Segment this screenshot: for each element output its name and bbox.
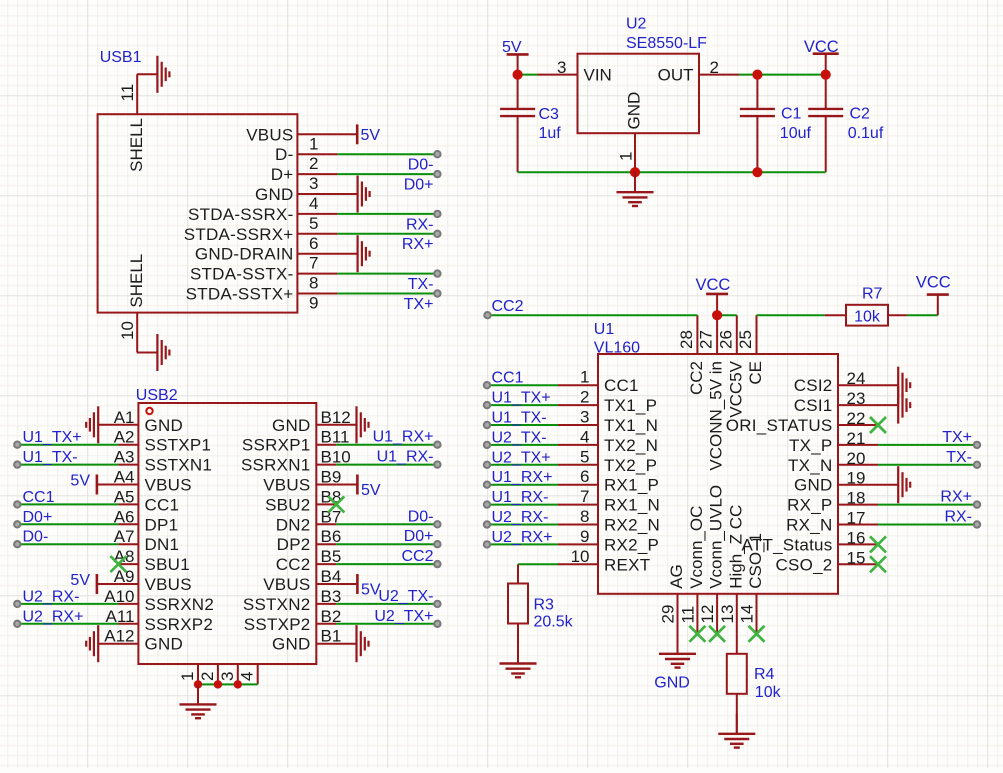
svg-text:11: 11 <box>118 84 137 102</box>
USB2 pin B2 SSTXP2 <box>244 607 342 634</box>
svg-text:RX+: RX+ <box>940 489 972 506</box>
power flag VCC at U2 output <box>804 38 839 75</box>
svg-text:TX1_N: TX1_N <box>604 416 658 435</box>
no-connect X at U1 pin 15 <box>870 556 886 572</box>
terminal node CC2 <box>434 561 440 567</box>
svg-text:10k: 10k <box>854 308 881 325</box>
net label TX+ <box>942 429 972 446</box>
svg-text:GND: GND <box>272 416 311 435</box>
IC U1 VL160 body <box>598 354 838 594</box>
ground at U1 pin 24 CSI2 <box>878 367 911 404</box>
junction at C1 top <box>752 70 762 80</box>
svg-text:VCONN_5V in: VCONN_5V in <box>707 361 726 471</box>
svg-text:5V: 5V <box>70 572 90 589</box>
svg-text:SE8550-LF: SE8550-LF <box>626 35 707 52</box>
svg-text:RX1_N: RX1_N <box>604 496 660 515</box>
wire net U2_RX+ to U1 pin 9 <box>487 543 558 545</box>
svg-text:9: 9 <box>580 527 589 546</box>
net label U2_TX- <box>378 588 433 605</box>
svg-text:2: 2 <box>580 388 589 407</box>
svg-text:RX1_P: RX1_P <box>604 476 659 495</box>
wire net CC2 top bus to U1 pin 28 <box>488 314 698 316</box>
svg-text:D0+: D0+ <box>23 509 53 526</box>
svg-text:VBUS: VBUS <box>263 575 310 594</box>
USB2 pin B8 SBU2 <box>265 487 341 514</box>
svg-text:8: 8 <box>309 274 318 293</box>
USB2 pin A7 DN1 <box>114 527 180 554</box>
ground at USB1 pin 7 GND-DRAIN <box>337 235 370 272</box>
U2 pin 3 VIN <box>538 58 612 85</box>
terminal node TX+ <box>434 290 440 296</box>
U1 pin 6 RX1_P <box>558 467 659 495</box>
svg-text:CC1: CC1 <box>492 370 524 387</box>
U1 pin 23 CSI1 <box>794 389 878 415</box>
wire net RX- from U1 pin 17 <box>878 524 977 526</box>
wire R7 to VCC <box>907 314 938 316</box>
svg-text:USB2: USB2 <box>136 387 178 404</box>
wire net U2_RX- at USB2 A10 <box>17 603 118 605</box>
no-connect X at U1 pin 14 <box>749 626 765 642</box>
U1 pin 7 RX1_N <box>558 487 660 514</box>
USB2 pin A1 GND <box>114 408 183 435</box>
svg-text:D0-: D0- <box>408 157 434 174</box>
svg-text:VCC: VCC <box>804 38 839 56</box>
net label U2_TX+ <box>374 608 433 625</box>
ground at U1 pin 29 AG <box>659 633 696 667</box>
wire net U1_RX+ at USB2 B11 <box>336 444 437 446</box>
svg-text:U2_TX-: U2_TX- <box>492 429 547 446</box>
svg-text:TX2_P: TX2_P <box>604 456 657 475</box>
svg-text:U2_RX-: U2_RX- <box>492 509 549 526</box>
no-connect X at U1 pin 16 <box>870 536 886 552</box>
svg-text:U1_RX-: U1_RX- <box>377 449 434 466</box>
ground under USB2 <box>180 684 217 718</box>
terminal node D0- <box>14 541 20 547</box>
USB2 pin A4 VBUS <box>114 468 192 495</box>
resistor R3 <box>508 564 574 663</box>
USB2 pin B10 SSRXN1 <box>241 448 351 475</box>
capacitor C2 <box>808 75 884 173</box>
svg-text:RX-: RX- <box>944 509 972 526</box>
U1 pin 9 RX2_P <box>558 527 659 555</box>
svg-text:RX-: RX- <box>406 216 434 233</box>
terminal node U1_RX+ <box>434 442 440 448</box>
reference designator U1 <box>594 321 640 357</box>
svg-text:U2_TX+: U2_TX+ <box>492 449 551 466</box>
USB2 pin B6 DP2 <box>277 527 342 554</box>
svg-text:20: 20 <box>847 449 866 468</box>
terminal node U1_RX- <box>434 461 440 467</box>
power flag 5V at USB2 pin B4 <box>336 574 381 599</box>
U1 pin 8 RX2_N <box>558 507 660 535</box>
svg-text:GND: GND <box>654 674 690 691</box>
svg-text:10k: 10k <box>755 684 782 701</box>
ground at U2 pin 1 <box>617 172 654 206</box>
svg-text:High_Z CC: High_Z CC <box>726 505 745 589</box>
svg-text:RX2_P: RX2_P <box>604 535 659 554</box>
wire net CC2 at USB2 B5 <box>336 563 437 565</box>
net label RX+ <box>940 489 972 506</box>
svg-text:VCC: VCC <box>695 276 730 294</box>
svg-text:U2_TX+: U2_TX+ <box>374 608 433 625</box>
svg-text:VBUS: VBUS <box>145 476 192 495</box>
svg-text:D+: D+ <box>271 165 294 184</box>
svg-text:7: 7 <box>309 254 318 273</box>
power flag 5V at USB2 pin A4 <box>70 473 118 495</box>
ground at USB2 pin B1 <box>336 625 369 662</box>
power flag VCC right of R7 <box>916 274 951 316</box>
wire net U1_RX- to U1 pin 7 <box>487 504 558 506</box>
net label U1_TX- <box>23 449 78 466</box>
terminal node RX- <box>974 521 980 527</box>
terminal node U1_RX+ <box>484 482 490 488</box>
terminal node D0+ <box>14 521 20 527</box>
wire net U2_RX- to U1 pin 8 <box>487 524 558 526</box>
svg-text:OUT: OUT <box>658 66 694 85</box>
wire net U1_TX+ at USB2 A2 <box>17 444 118 446</box>
wire net RX+ from USB1 <box>338 233 438 235</box>
terminal node RX- <box>434 211 440 217</box>
svg-text:9: 9 <box>309 294 318 313</box>
svg-text:GND: GND <box>794 476 833 495</box>
terminal node U2_TX+ <box>484 462 490 468</box>
net label CC2 <box>492 298 524 315</box>
reference designator U2 <box>626 16 707 52</box>
junction at U2 GND <box>630 167 640 177</box>
svg-text:5: 5 <box>309 214 318 233</box>
svg-text:TX_P: TX_P <box>789 436 833 455</box>
svg-text:SSRXN2: SSRXN2 <box>145 595 215 614</box>
wire net RX+ from U1 pin 18 <box>878 504 977 506</box>
resistor R7 <box>825 285 907 325</box>
svg-text:SSTXP2: SSTXP2 <box>244 615 311 634</box>
svg-text:GND: GND <box>145 416 184 435</box>
wire net TX+ from USB1 <box>338 293 438 295</box>
ground at USB2 pin A1 <box>86 406 119 443</box>
svg-text:DN1: DN1 <box>145 535 180 554</box>
svg-text:U1_TX-: U1_TX- <box>492 410 547 427</box>
junction at 5V/C3 <box>513 70 523 80</box>
USB2 pin A12 GND <box>104 627 183 654</box>
U1 pin 4 TX2_N <box>558 427 658 455</box>
wire net U1_TX- to U1 pin 3 <box>487 424 558 426</box>
power flag 5V at USB2 pin A9 <box>70 572 118 594</box>
net label U1_RX- <box>492 489 549 506</box>
ground at USB1 pin 11 <box>137 56 170 93</box>
wire joining USB2 pins 1-4 <box>198 683 258 685</box>
svg-text:22: 22 <box>847 409 866 428</box>
USB2 bottom pin 3 <box>218 664 238 684</box>
capacitor C1 <box>740 75 812 173</box>
svg-text:VIN: VIN <box>584 66 612 85</box>
svg-text:D-: D- <box>275 145 293 164</box>
USB2 pin A3 SSTXN1 <box>114 448 212 475</box>
wire VCC junction to U1 pin 26 <box>717 314 737 316</box>
U1 top pin 25 CE <box>736 315 765 384</box>
svg-text:SSTXN2: SSTXN2 <box>243 595 311 614</box>
terminal node U2_TX- <box>434 601 440 607</box>
wire 5V to VIN <box>518 74 538 76</box>
USB1 pin 7 GND-DRAIN <box>195 245 337 273</box>
ground at U1 pin 19 GND <box>878 466 911 503</box>
svg-text:19: 19 <box>847 469 866 488</box>
net label D0- <box>408 157 434 174</box>
svg-text:REXT: REXT <box>604 555 650 574</box>
wire net TX- from U1 pin 20 <box>878 464 977 466</box>
U1 pin 16 ATT_Status <box>742 528 879 554</box>
U1 bottom pin 13 High_Z CC <box>718 505 746 634</box>
terminal node CC1 <box>484 382 490 388</box>
wire net U2_TX+ at USB2 B2 <box>336 623 437 625</box>
U1 pin 5 TX2_P <box>558 447 657 475</box>
svg-text:U1_TX-: U1_TX- <box>23 449 78 466</box>
power flag VCC above U1 <box>695 276 730 315</box>
net label U2_RX+ <box>492 529 553 546</box>
svg-text:SSTXP1: SSTXP1 <box>145 436 212 455</box>
ground at USB1 pin 10 <box>137 334 170 371</box>
svg-text:C3: C3 <box>539 106 560 123</box>
terminal node D0- <box>434 151 440 157</box>
svg-text:10: 10 <box>118 321 137 340</box>
svg-text:25: 25 <box>736 330 755 349</box>
USB1 pin 1 VBUS <box>246 125 337 153</box>
svg-text:SBU2: SBU2 <box>265 495 310 514</box>
svg-text:U1_TX+: U1_TX+ <box>23 429 82 446</box>
svg-text:RX2_N: RX2_N <box>604 516 660 535</box>
USB1 pin 6 STDA-SSRX+ <box>184 225 338 253</box>
terminal node TX+ <box>974 442 980 448</box>
terminal node CC1 <box>14 501 20 507</box>
net label GND <box>654 674 690 691</box>
svg-text:1: 1 <box>580 368 589 387</box>
svg-text:24: 24 <box>847 369 866 388</box>
reference designator USB2 <box>136 387 178 404</box>
svg-text:TX_N: TX_N <box>788 456 832 475</box>
U1 top pin 26 VCC5V <box>716 315 745 417</box>
connector USB2 body <box>138 403 316 664</box>
svg-text:1uf: 1uf <box>539 125 562 142</box>
junction at VCC/C2 top <box>821 70 831 80</box>
junction at USB2 pin 2 <box>214 680 222 688</box>
terminal node RX+ <box>434 231 440 237</box>
svg-text:2: 2 <box>309 154 318 173</box>
wire net U1_TX+ to U1 pin 2 <box>487 404 558 406</box>
terminal node U1_TX- <box>484 422 490 428</box>
svg-text:R4: R4 <box>754 666 775 683</box>
net label CC1 <box>23 489 55 506</box>
terminal node U1_TX+ <box>484 402 490 408</box>
net label TX- <box>408 276 434 293</box>
svg-text:3: 3 <box>218 672 237 681</box>
svg-text:20.5k: 20.5k <box>534 613 574 630</box>
resistor R4 <box>727 634 782 734</box>
svg-text:VBUS: VBUS <box>263 476 310 495</box>
U1 pin 2 TX1_P <box>558 388 657 416</box>
wire OUT to VCC <box>739 74 826 76</box>
svg-text:VCC: VCC <box>916 274 951 292</box>
svg-text:3: 3 <box>557 58 566 77</box>
svg-text:26: 26 <box>716 330 735 349</box>
svg-text:GND: GND <box>145 635 184 654</box>
USB2 pin A10 SSRXN2 <box>104 587 214 614</box>
svg-text:17: 17 <box>847 509 866 528</box>
svg-text:Vconn_OC: Vconn_OC <box>687 506 706 589</box>
USB2 pin B3 SSTXN2 <box>243 587 341 614</box>
USB2 pin A5 CC1 <box>114 487 180 514</box>
svg-text:2: 2 <box>198 672 217 681</box>
svg-text:4: 4 <box>238 672 257 681</box>
USB1 pin 2 D- <box>275 145 337 173</box>
USB2 pin B7 DN2 <box>276 507 342 534</box>
svg-text:6: 6 <box>309 234 318 253</box>
svg-text:23: 23 <box>847 389 866 408</box>
U1 pin 10 REXT <box>558 547 650 575</box>
svg-text:STDA-SSRX-: STDA-SSRX- <box>188 205 293 224</box>
svg-text:DP2: DP2 <box>277 535 311 554</box>
svg-text:CC1: CC1 <box>23 489 55 506</box>
junction at U1 pin 27 <box>712 310 722 320</box>
net label RX- <box>406 216 434 233</box>
svg-text:CSI1: CSI1 <box>794 396 833 415</box>
svg-text:RX_N: RX_N <box>786 516 832 535</box>
svg-text:GND-DRAIN: GND-DRAIN <box>195 245 294 264</box>
svg-text:13: 13 <box>718 605 737 624</box>
reference designator USB1 <box>100 49 142 66</box>
svg-text:5V: 5V <box>70 473 90 490</box>
USB2 pin B4 VBUS <box>263 567 341 594</box>
net label D0- <box>23 529 49 546</box>
svg-text:14: 14 <box>738 605 757 624</box>
svg-text:TX1_P: TX1_P <box>604 396 657 415</box>
U1 pin 15 CSO_2 <box>776 548 879 574</box>
USB2 pin A9 VBUS <box>114 567 192 594</box>
wire net U1_RX+ to U1 pin 6 <box>487 484 558 486</box>
ground wire under U2 <box>518 171 826 173</box>
wire net U2_TX- to U1 pin 4 <box>487 444 558 446</box>
net label D0- <box>408 508 434 525</box>
U1 pin 3 TX1_N <box>558 408 658 436</box>
svg-text:27: 27 <box>697 330 716 349</box>
svg-text:CC1: CC1 <box>604 376 639 395</box>
svg-text:SSRXP2: SSRXP2 <box>145 615 214 634</box>
svg-text:CC2: CC2 <box>401 548 433 565</box>
terminal node D0- <box>434 521 440 527</box>
svg-text:CC1: CC1 <box>145 495 180 514</box>
U2 pin 1 GND <box>617 92 644 172</box>
ground under R3 <box>500 643 537 677</box>
no-connect X at U1 pin 12 <box>709 626 725 642</box>
svg-text:2: 2 <box>710 58 719 77</box>
svg-text:CC2: CC2 <box>687 361 706 395</box>
power flag 5V at USB2 pin B9 <box>336 475 381 500</box>
U2 pin 2 OUT <box>658 58 739 85</box>
no-connect X at USB2 pin B8 <box>328 496 344 512</box>
svg-text:U2_RX-: U2_RX- <box>23 588 80 605</box>
net label U1_TX+ <box>23 429 82 446</box>
terminal node U2_RX- <box>14 601 20 607</box>
USB2 pin B1 GND <box>272 627 341 654</box>
svg-text:C1: C1 <box>781 105 802 122</box>
wire REXT to R3 <box>518 563 558 565</box>
junction at C1 bottom <box>752 167 762 177</box>
junction at USB2 pin 1 <box>194 680 202 688</box>
svg-text:R3: R3 <box>534 597 555 614</box>
USB2 bottom pin 1 <box>178 664 198 684</box>
terminal node U2_RX+ <box>484 541 490 547</box>
svg-text:SHELL: SHELL <box>127 254 146 308</box>
terminal node D0+ <box>434 541 440 547</box>
USB2 bottom pin 4 <box>238 664 258 684</box>
svg-text:TX2_N: TX2_N <box>604 436 658 455</box>
svg-text:VBUS: VBUS <box>145 575 192 594</box>
svg-text:7: 7 <box>580 487 589 506</box>
svg-text:RX_P: RX_P <box>787 496 832 515</box>
svg-text:29: 29 <box>659 605 678 624</box>
svg-text:21: 21 <box>847 429 866 448</box>
svg-text:U1_TX+: U1_TX+ <box>492 390 551 407</box>
terminal node TX- <box>434 270 440 276</box>
svg-text:4: 4 <box>309 194 318 213</box>
USB1 pin 3 D+ <box>271 165 338 193</box>
svg-text:SHELL: SHELL <box>127 118 146 172</box>
wire U1 pin 25 CE to R7 <box>757 314 825 316</box>
wire net TX- from USB1 <box>338 273 438 275</box>
USB2 pin A8 SBU1 <box>114 547 190 574</box>
svg-text:DN2: DN2 <box>276 515 311 534</box>
wire net D0- at USB2 A7 <box>17 543 118 545</box>
net label U2_RX- <box>492 509 549 526</box>
connector USB1 body <box>98 114 298 312</box>
net label U1_TX- <box>492 410 547 427</box>
U1 bottom pin 29 AG <box>659 564 687 634</box>
svg-text:D0+: D0+ <box>404 528 434 545</box>
wire net RX- from USB1 <box>338 213 438 215</box>
U1 bottom pin 11 Vconn_OC <box>678 506 706 634</box>
U1 bottom pin 12 Vconn_UVLO <box>698 485 726 634</box>
U1 pin 24 CSI2 <box>794 369 878 395</box>
USB2 bottom pin 2 <box>198 664 218 684</box>
net label U1_TX+ <box>492 390 551 407</box>
svg-text:VCC5V: VCC5V <box>726 360 745 417</box>
wire net D0+ at USB2 B6 <box>336 543 437 545</box>
svg-text:8: 8 <box>580 507 589 526</box>
wire net D0- at USB2 B7 <box>336 523 437 525</box>
svg-text:STDA-SSTX-: STDA-SSTX- <box>190 265 294 284</box>
svg-text:U1: U1 <box>594 321 615 338</box>
ground at U1 pin 23 CSI1 <box>878 387 911 424</box>
svg-text:U1_RX+: U1_RX+ <box>492 469 553 486</box>
U1 pin 18 RX_P <box>787 489 878 515</box>
svg-text:CSO_2: CSO_2 <box>776 555 833 574</box>
svg-text:Vconn_UVLO: Vconn_UVLO <box>707 485 726 589</box>
svg-text:U2_RX+: U2_RX+ <box>23 608 84 625</box>
wire net D0+ at USB2 A6 <box>17 523 118 525</box>
USB2 pin B11 SSRXP1 <box>242 428 350 455</box>
U1 pin 20 TX_N <box>788 449 878 475</box>
USB2 pin B9 VBUS <box>263 468 341 495</box>
svg-text:5V: 5V <box>361 482 381 499</box>
USB2 pin A2 SSTXP1 <box>114 428 212 455</box>
svg-text:STDA-SSTX+: STDA-SSTX+ <box>186 285 294 304</box>
net label U1_RX+ <box>492 469 553 486</box>
net label TX+ <box>404 296 434 313</box>
svg-text:USB1: USB1 <box>100 49 142 66</box>
U1 pin 1 CC1 <box>558 368 639 396</box>
svg-text:CSI2: CSI2 <box>794 376 833 395</box>
USB1 pin 4 GND <box>255 185 337 213</box>
U1 pin 21 TX_P <box>789 429 878 455</box>
svg-text:R7: R7 <box>862 285 883 302</box>
